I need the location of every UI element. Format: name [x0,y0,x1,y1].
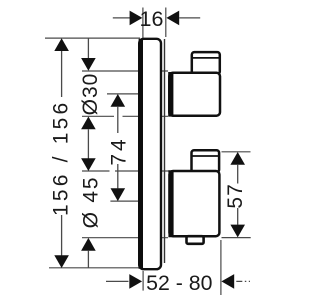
52-80 dashed leader [236,280,250,282]
arrow up at Ø30 bottom [81,117,96,130]
arrow down Ø30 [81,58,96,71]
knob2 (thermostat handle) cap/lever [192,150,220,172]
Ø45 lower shaft [87,251,89,268]
wire: Ø30 top witness [82,70,168,72]
arrow down 74 [111,188,126,201]
knob1 body [169,73,220,116]
arrow left 52-80 [221,274,234,289]
wire: bottom witness line of 156 dim [49,267,140,269]
arrow up Ø45 bottom [81,238,96,251]
svg-text:156 / 156: 156 / 156 [50,100,73,216]
arrow up 156 [54,38,69,51]
wire: Ø45 bottom witness [82,237,168,239]
arrow right 52-80 [129,274,142,289]
arrow down 156 [54,255,69,268]
arrow up 74 [111,94,126,107]
16 right leader [179,17,200,19]
74 shaft upper [117,107,119,133]
wire: 57 bottom witness [222,237,251,239]
wire: 74 top witness (knob1 centerline) [107,93,138,95]
arrow down Ø45 [81,158,96,171]
52-80 left leader [106,280,129,282]
16 left leader [113,17,131,19]
knob2 cap inner line [192,155,218,157]
arrow up 57 [230,152,245,165]
knob1 body left thick edge [168,72,173,117]
wire: 52-80 left witness [142,271,144,291]
plate back thick edge [139,39,143,269]
knob2 body [170,171,220,236]
knob2 bottom tab (safety stop) [187,236,204,244]
knob1 cap inner line [193,57,220,59]
57 shaft upper [237,165,239,184]
dimension 156/156 line top segment [61,45,63,97]
wire: 74 bottom witness (knob2 centerline) [110,200,138,202]
svg-text:57: 57 [224,183,247,208]
shaft between Ø30 bottom and Ø45 top [87,129,89,158]
wire: top witness line of 156 dim [45,37,140,39]
57 shaft lower [237,208,239,225]
svg-text:74: 74 [108,136,131,165]
wire: 57 top witness [222,151,251,153]
plate inner face line [164,39,166,263]
Ø30 upper shaft [87,38,89,59]
svg-text:Ø30: Ø30 [79,73,102,116]
wire: 16 left witness [142,8,144,39]
wire: Ø30 bottom witness [82,115,114,117]
arrow left 16 [166,11,179,26]
arrow down 57 [230,225,245,238]
wire: Ø45 top witness [82,170,110,172]
svg-text:16: 16 [140,7,164,31]
74 shaft lower [117,164,119,188]
dimension 156/156 line bottom segment [61,215,63,262]
svg-text:52 - 80: 52 - 80 [146,271,212,295]
wire: 16 right witness [165,8,167,38]
svg-text:Ø 45: Ø 45 [80,176,103,229]
arrow right 16 [130,11,143,26]
plate outline (escutcheon side view) [139,39,161,269]
knob2 body left thick edge [168,170,173,237]
wire: 52-80 right witness [220,240,222,295]
knob1 (shut-off handle) cap/lever [192,52,220,74]
